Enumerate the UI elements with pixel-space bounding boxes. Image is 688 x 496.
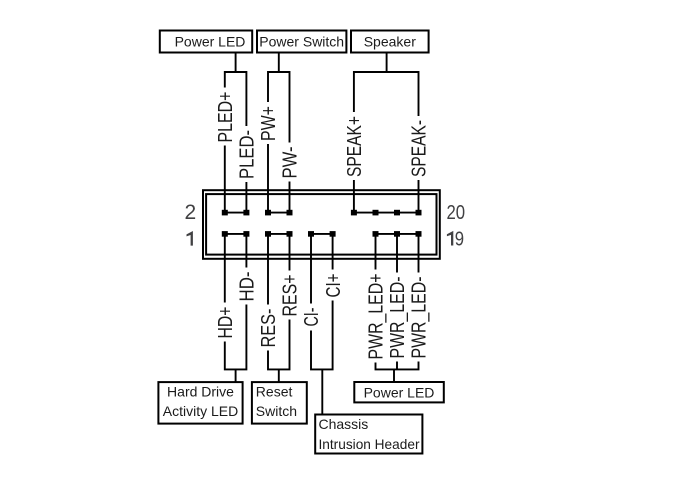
wire PW- to connector bbox=[289, 182, 291, 213]
wire PLED- to connector bbox=[245, 182, 247, 213]
pin square row1 col1 bbox=[222, 231, 228, 237]
pin square row2 col9 bbox=[394, 210, 400, 216]
link pins row2 PLED pair bbox=[225, 212, 247, 214]
link pins row1 HD pair bbox=[225, 233, 247, 235]
wire pin row1 col9 down to PWR_LED- bbox=[396, 234, 398, 273]
wire stub into Hard Drive box bbox=[235, 369, 237, 382]
pin square row2 col7 bbox=[351, 210, 357, 216]
pin square row2 col1 bbox=[222, 210, 228, 216]
link pins row1 RES pair bbox=[268, 233, 290, 235]
svg-text:PWR_LED-: PWR_LED- bbox=[409, 277, 431, 359]
box Reset Switch bbox=[252, 382, 307, 424]
wire SPEAK- to connector bbox=[418, 180, 420, 213]
pin square row1 col5 bbox=[308, 231, 314, 237]
wire PW+ to connector bbox=[267, 144, 269, 213]
svg-text:Activity LED: Activity LED bbox=[163, 403, 238, 419]
pin number 1 bbox=[187, 231, 193, 246]
svg-text:RES-: RES- bbox=[258, 309, 280, 348]
svg-text:Power LED: Power LED bbox=[364, 385, 435, 401]
pin square row2 col4 bbox=[287, 210, 293, 216]
box Power LED (bottom) bbox=[354, 382, 444, 402]
pin square row1 col2 bbox=[243, 231, 249, 237]
svg-text:PLED-: PLED- bbox=[237, 130, 259, 179]
link pins row2 PW pair bbox=[268, 212, 290, 214]
bracket Power Switch to PW+/PW- bbox=[268, 72, 290, 143]
wire stub PWR_LED middle bbox=[396, 362, 398, 370]
wire PLED+ to connector bbox=[224, 146, 226, 213]
wire pin row1 col2 down to HD- bbox=[245, 234, 247, 268]
svg-text:PW-: PW- bbox=[280, 147, 302, 179]
link pins row2 SPEAK span bbox=[354, 212, 419, 214]
svg-text:Chassis: Chassis bbox=[319, 416, 369, 432]
wire pin row1 col8 down to PWR_LED+ bbox=[375, 234, 377, 270]
svg-text:Reset: Reset bbox=[256, 384, 293, 400]
wire pin row1 col5 down to CI- bbox=[310, 234, 312, 304]
wire pin row1 col4 down to RES+ bbox=[289, 234, 291, 271]
svg-text:SPEAK-: SPEAK- bbox=[409, 120, 431, 177]
svg-text:Speaker: Speaker bbox=[364, 34, 416, 50]
svg-text:HD-: HD- bbox=[237, 272, 259, 302]
svg-text:CI-: CI- bbox=[301, 308, 323, 327]
bracket Speaker to SPEAK+/SPEAK- bbox=[354, 72, 419, 116]
svg-text:PW+: PW+ bbox=[258, 106, 280, 141]
svg-text:9: 9 bbox=[455, 229, 464, 251]
wire pin row1 col10 down to PWR_LED- bbox=[418, 234, 420, 273]
wire stub into Chassis box bbox=[321, 369, 323, 414]
wire stub from Speaker box bbox=[386, 53, 388, 73]
pin square row1 col8 bbox=[373, 231, 379, 237]
svg-text:PWR_LED-: PWR_LED- bbox=[387, 277, 409, 359]
svg-text:PWR_LED+: PWR_LED+ bbox=[366, 274, 388, 360]
connector F_PANEL outer outline bbox=[203, 190, 440, 259]
pin square row2 col10 bbox=[416, 210, 422, 216]
pin square row1 col3 bbox=[265, 231, 271, 237]
svg-text:HD+: HD+ bbox=[215, 307, 237, 339]
svg-text:Switch: Switch bbox=[256, 403, 297, 419]
svg-text:Intrusion Header: Intrusion Header bbox=[319, 436, 420, 452]
svg-text:20: 20 bbox=[447, 202, 466, 224]
box Power LED (top) bbox=[160, 31, 252, 53]
svg-text:2: 2 bbox=[185, 201, 197, 224]
link pins row1 CI pair bbox=[311, 233, 333, 235]
svg-text:Power Switch: Power Switch bbox=[259, 34, 344, 50]
bracket RES pair to Reset box bbox=[268, 320, 290, 370]
box Hard Drive Activity LED bbox=[158, 382, 242, 424]
wire stub into bottom Power LED box bbox=[393, 369, 395, 382]
wire pin row1 col1 down to HD+ bbox=[224, 234, 226, 303]
svg-text:SPEAK+: SPEAK+ bbox=[344, 116, 366, 177]
wire stub from Power Switch box bbox=[278, 53, 280, 73]
bracket Power LED to PLED+/PLED- bbox=[225, 72, 247, 126]
pin square row1 col4 bbox=[287, 231, 293, 237]
svg-text:Hard Drive: Hard Drive bbox=[167, 384, 234, 400]
wire pin row1 col3 down to RES- bbox=[267, 234, 269, 305]
svg-text:CI+: CI+ bbox=[323, 274, 345, 298]
pin number 19 bbox=[447, 231, 453, 246]
pin square row1 col9 bbox=[394, 231, 400, 237]
wire SPEAK+ to connector bbox=[353, 180, 355, 213]
wire pin row1 col6 down to CI+ bbox=[332, 234, 334, 270]
bracket HD pair to Hard Drive box bbox=[225, 305, 247, 370]
svg-text:Power LED: Power LED bbox=[175, 34, 246, 50]
connector inner outline bbox=[206, 194, 436, 255]
pin square row2 col8 bbox=[373, 210, 379, 216]
box Power Switch bbox=[257, 31, 346, 53]
bracket PWR_LED triple to Power LED box bbox=[376, 362, 419, 370]
wire stub from Power LED box bbox=[235, 53, 237, 73]
box Chassis Intrusion Header bbox=[315, 415, 422, 454]
link pins row1 PWR_LED span bbox=[376, 233, 419, 235]
pin square row1 col10 bbox=[416, 231, 422, 237]
pin square row1 col6 bbox=[330, 231, 336, 237]
pin square row2 col3 bbox=[265, 210, 271, 216]
svg-text:RES+: RES+ bbox=[280, 275, 302, 317]
svg-text:PLED+: PLED+ bbox=[215, 92, 237, 143]
bracket CI pair to Chassis box bbox=[311, 301, 333, 370]
wire stub into Reset box bbox=[278, 369, 280, 382]
box Speaker bbox=[351, 31, 429, 53]
pin square row2 col2 bbox=[243, 210, 249, 216]
